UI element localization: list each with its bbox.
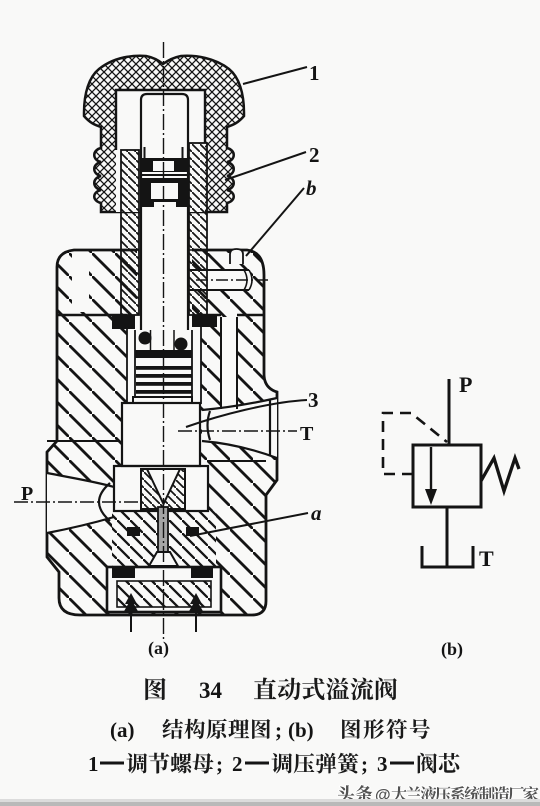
drain pin left xyxy=(123,593,139,632)
leader a xyxy=(190,501,322,536)
drain passage vertical xyxy=(221,317,237,411)
boss step line right xyxy=(208,460,266,462)
svg-text:1: 1 xyxy=(88,752,99,776)
port P funnel xyxy=(47,473,114,533)
svg-text:b: b xyxy=(306,176,317,200)
symbol tank xyxy=(422,546,473,567)
photo edge strip xyxy=(0,799,540,802)
plug seal right xyxy=(191,567,213,578)
locknut assembly xyxy=(141,158,188,207)
spring cup walls xyxy=(151,330,175,352)
screw boss right xyxy=(189,143,207,315)
svg-text:;: ; xyxy=(361,752,368,776)
caption line3 xyxy=(88,752,459,776)
seat seal right xyxy=(186,527,199,536)
cap top ticks xyxy=(121,249,207,251)
port P axis xyxy=(14,501,140,503)
port P bore xyxy=(47,473,114,533)
spool 3 xyxy=(122,397,200,466)
svg-text:(a): (a) xyxy=(110,718,135,742)
svg-text:2: 2 xyxy=(309,143,320,167)
cap screw hole xyxy=(137,248,192,318)
symbol spring xyxy=(481,458,519,491)
valve seat piece xyxy=(112,510,216,567)
valve body xyxy=(47,250,277,615)
port T funnel xyxy=(202,398,277,458)
svg-text:;: ; xyxy=(275,718,282,742)
svg-text:(b): (b) xyxy=(288,718,314,742)
plug seal left xyxy=(112,567,135,578)
drain pin right xyxy=(188,593,204,632)
leader 3 xyxy=(186,388,319,427)
svg-text:34: 34 xyxy=(199,678,223,703)
spring 2 coils xyxy=(136,366,192,401)
drill end xyxy=(244,270,252,290)
spring seat ball left xyxy=(139,332,152,345)
joint seal right xyxy=(192,315,217,327)
drain axis xyxy=(176,279,268,281)
svg-text:;: ; xyxy=(216,752,223,776)
symbol pilot dashed line xyxy=(383,413,447,474)
cap left bolt strip xyxy=(72,253,89,312)
svg-text:P: P xyxy=(459,372,472,397)
spring seat plate xyxy=(135,350,192,358)
adjusting knob 1 xyxy=(84,56,244,212)
svg-text:T: T xyxy=(479,546,494,571)
svg-text:a: a xyxy=(311,501,322,525)
stem rod a xyxy=(149,507,178,566)
cap joint line xyxy=(57,314,264,316)
svg-text:(b): (b) xyxy=(441,639,463,660)
drain passage walls xyxy=(185,270,249,409)
symbol flow arrow xyxy=(425,447,437,505)
port T axis xyxy=(178,430,297,432)
knob recess xyxy=(116,90,205,212)
svg-text:3: 3 xyxy=(308,388,319,412)
seat chamber outline xyxy=(114,466,208,511)
cap vent slot xyxy=(230,249,243,264)
caption line2 xyxy=(110,718,430,742)
symbol T line xyxy=(446,507,449,567)
adjusting screw stem xyxy=(141,94,188,330)
svg-text:P: P xyxy=(21,483,33,505)
leader 1 xyxy=(243,61,320,85)
symbol P line xyxy=(448,379,451,445)
seat chamber xyxy=(114,466,208,511)
svg-text:1: 1 xyxy=(309,61,320,85)
port T bore xyxy=(202,398,277,458)
joint seal left xyxy=(112,315,135,329)
centerline xyxy=(163,42,165,640)
seat seal left xyxy=(127,527,140,536)
seat block xyxy=(141,469,185,509)
watermark xyxy=(338,785,539,804)
chamber walls xyxy=(127,316,201,404)
spring chamber xyxy=(127,316,201,404)
locknut ticks xyxy=(145,147,183,158)
boss step line left xyxy=(47,440,118,442)
symbol valve box xyxy=(413,445,481,507)
leader b xyxy=(246,176,317,256)
svg-text:3: 3 xyxy=(377,752,388,776)
screw boss left xyxy=(121,150,139,315)
svg-text:(a): (a) xyxy=(148,638,169,659)
svg-text:T: T xyxy=(300,423,314,445)
drain passage horizontal xyxy=(185,270,251,290)
caption title xyxy=(145,678,397,703)
svg-text:2: 2 xyxy=(232,752,243,776)
bottom plug xyxy=(107,567,221,612)
spring seat ball right xyxy=(175,338,188,351)
leader 2 xyxy=(225,143,320,180)
spool bore xyxy=(122,403,200,466)
